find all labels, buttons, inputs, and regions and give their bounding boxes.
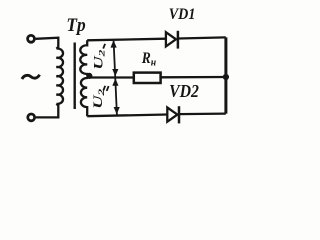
wire middle rail (center tap to resistor RH) [89,76,134,78]
terminal top-left input [28,35,35,42]
svg-text:VD2: VD2 [169,81,199,101]
arrowhead U2'' up at middle rail [112,78,118,85]
wire bottom rail (secondary bottom to VD2 anode) [87,115,167,117]
arrowhead U2' up at top rail [111,40,117,47]
svg-text:VD1: VD1 [169,5,196,23]
wire bottom rail (VD2 cathode to right corner) [179,112,226,115]
diode VD1 cathode bar [177,31,180,49]
diode VD2 triangle [167,108,177,122]
svg-text:Tp: Tp [66,14,85,35]
transformer T primary winding [56,49,63,104]
node: secondary center tap junction dot [86,73,92,79]
AC source tilde symbol [22,75,40,79]
node: middle rail to right bus junction dot [223,74,229,80]
label U2' prime tick [103,44,105,49]
transformer secondary lower half winding [81,76,89,116]
diode VD1 triangle [166,32,176,46]
wire right vertical output bus [224,37,227,113]
diode VD2 cathode bar [178,106,181,123]
svg-text:U2: U2 [92,49,107,70]
svg-text:U2: U2 [92,88,107,109]
svg-text:Rн: Rн [141,50,157,68]
transformer secondary upper half winding [80,40,89,76]
wire middle rail (resistor RH to right bus) [161,76,226,79]
wire primary winding to terminal bottom-left [36,104,59,118]
arrowhead U2' down at middle rail [112,69,118,76]
resistor RH body [134,73,161,83]
voltage annotation dimension line U2 [114,41,117,115]
arrowhead U2'' down at bottom rail [114,107,120,114]
label U2'' double prime ticks [103,86,108,91]
terminal bottom-left input [28,114,35,121]
wire terminal-top to primary winding [36,38,59,49]
wire top rail (secondary top to VD1 anode) [87,39,166,41]
wire top rail (VD1 cathode to right corner) [178,37,226,38]
transformer core [73,43,75,110]
